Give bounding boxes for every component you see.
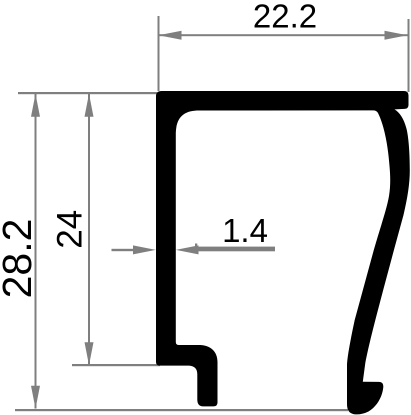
svg-text:28.2: 28.2 <box>0 219 40 299</box>
dimension line 1.4 right tail end-tick <box>195 244 197 254</box>
dimension line 1.4 left tail <box>112 249 135 251</box>
arrowhead 1.4 pointing right at wall <box>133 245 156 254</box>
svg-text:24: 24 <box>51 210 90 249</box>
extension line right of 22.2 dim <box>408 19 410 92</box>
arrowhead top of 24 <box>85 94 94 117</box>
dimension line 24 <box>88 94 90 365</box>
extension line left of 22.2 dim <box>158 16 160 91</box>
dimension line 1.4 leader under text <box>196 247 275 252</box>
dimension line 22.2 <box>158 34 408 36</box>
arrowhead top of 28.2 <box>31 94 40 117</box>
extension line wall-bottom horizontal <box>72 364 160 366</box>
profile outline (black cross-section) <box>156 91 410 414</box>
extension line bottom horizontal <box>15 409 348 411</box>
dimension line 28.2 <box>35 94 37 409</box>
svg-text:1.4: 1.4 <box>222 212 268 249</box>
svg-text:22.2: 22.2 <box>253 0 317 35</box>
arrowhead right of 22.2 <box>385 31 408 40</box>
arrowhead bottom of 28.2 <box>31 386 40 409</box>
arrowhead left of 22.2 <box>159 31 182 40</box>
extension line top-left horizontal <box>18 92 157 94</box>
arrowhead bottom of 24 <box>85 342 94 365</box>
arrowhead 1.4 pointing left at wall <box>176 245 199 254</box>
